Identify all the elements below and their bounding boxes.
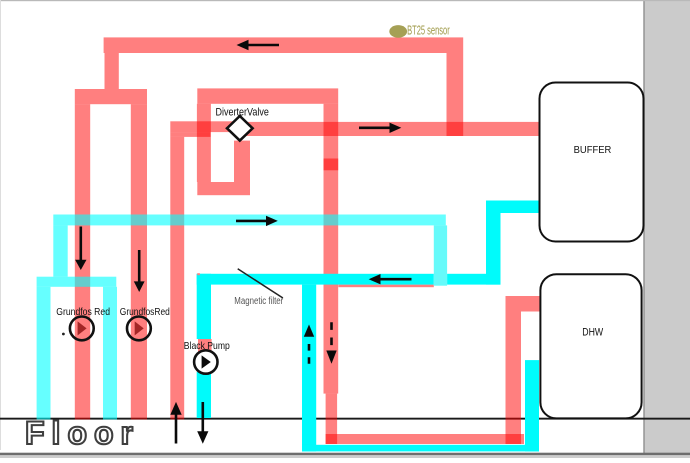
gray right margin — [645, 0, 690, 458]
wire: pipe E left segment — [170, 121, 241, 132]
node: red speck at cyan corner — [197, 273, 200, 275]
pump Black Pump — [194, 350, 217, 373]
wire: cyan leg B to floor — [103, 287, 117, 420]
wire: top horizontal supply pipe A — [104, 37, 464, 53]
DHW tank — [540, 274, 641, 418]
wire: bright cyan below Black Pump — [197, 372, 211, 418]
wire: cyan elbow vertical left — [53, 225, 67, 276]
top hairline — [0, 0, 690, 1]
wire: light cyan connector vertical (drawn over) — [434, 225, 447, 285]
stray dot — [62, 333, 65, 336]
left hairline — [0, 0, 1, 450]
ARROWS — [75, 40, 411, 444]
LIGHT CYAN PIPES (semi-transparent) — [37, 215, 446, 420]
svg-text:Black Pump: Black Pump — [184, 340, 230, 352]
svg-text:BT25 sensor: BT25 sensor — [407, 23, 450, 38]
wire: cyan leg A to floor — [37, 287, 51, 420]
wire: long vertical V2 — [324, 104, 339, 394]
wire: bright cyan bottom run — [302, 445, 539, 452]
arrow: left on pipe A — [246, 44, 279, 47]
wire: lower bright cyan horizontal (left of connector) — [197, 274, 434, 285]
wire: red vertical D to floor — [170, 137, 184, 420]
wire: long cyan return horizontal — [53, 215, 446, 226]
wire: cyan cap bar — [37, 277, 117, 287]
svg-text:Magnetic filter: Magnetic filter — [234, 296, 284, 307]
magnetic filter pointer line — [238, 269, 283, 298]
wire: vertical drop B from pipe A — [105, 53, 119, 89]
wire: red inlet above Black Pump — [198, 339, 212, 352]
wire: vertical V1 below diverter loop (upper) — [197, 104, 211, 182]
wire: bright cyan vertical to Black Pump — [197, 274, 211, 339]
wire: U right leg up to diverter — [234, 141, 250, 182]
wire: diverter loop top bar — [197, 88, 338, 103]
svg-text:DHW: DHW — [582, 326, 603, 338]
svg-text:Floor: Floor — [25, 415, 140, 451]
arrow: down over pump 2 — [138, 250, 141, 282]
floor line — [0, 418, 690, 420]
gray bottom margin — [0, 455, 690, 458]
arrow: dashed up on cyan — [308, 344, 311, 365]
svg-text:DiverterValve: DiverterValve — [216, 106, 269, 118]
pump GrundfosRed 2 — [127, 317, 151, 341]
wire: vertical from pipe A right end — [447, 53, 464, 136]
svg-text:BUFFER: BUFFER — [574, 144, 612, 156]
svg-text:GrundfosRed: GrundfosRed — [120, 306, 170, 318]
wire: lower bright cyan horizontal (right of connector) — [447, 274, 500, 285]
BUFFER tank — [540, 83, 644, 242]
arrow: dashed down on red — [330, 322, 333, 346]
wire: left red leg to pump Grundfos Red — [75, 104, 90, 419]
arrow: down through floor — [202, 402, 205, 433]
DiverterValve diamond — [227, 116, 253, 141]
wire: pipe E right segment to BUFFER — [241, 122, 539, 136]
wire: bright cyan elbow vertical — [486, 201, 501, 285]
wire: hidden red return peeking below cyan — [338, 285, 433, 288]
wire: bottom red return run — [326, 434, 524, 444]
wire: U bar below diverter — [197, 182, 250, 195]
wire: red elbow horizontal to DHW — [521, 296, 541, 312]
svg-text:Grundfos Red: Grundfos Red — [56, 306, 110, 318]
wire: bright cyan mid vertical — [302, 285, 316, 452]
arrow: down over pump 1 — [80, 227, 83, 261]
wire: pipe E lower stub — [170, 132, 210, 137]
arrow: right on pipe E — [359, 127, 392, 130]
BT25 sensor blob — [389, 25, 407, 38]
wire: manifold header bar — [75, 89, 147, 104]
arrow: left on lower cyan — [379, 278, 412, 281]
wire: bright cyan top horizontal to BUFFER — [486, 201, 541, 214]
wire: V2 narrow lower section — [326, 394, 338, 444]
wire: second red leg to pump GrundfosRed — [131, 104, 147, 419]
wire: darker overlap patch on V2 — [324, 159, 339, 171]
RED PIPE NETWORK (semi-transparent) — [75, 37, 541, 444]
arrow: up through floor — [175, 414, 178, 444]
wire: red vertical DHW drop — [506, 296, 522, 444]
BRIGHT CYAN PIPES — [197, 201, 541, 452]
arrow: right on cyan return — [236, 220, 268, 223]
wire: bright cyan right vertical — [525, 360, 539, 451]
pump Grundfos Red 1 — [70, 317, 94, 341]
